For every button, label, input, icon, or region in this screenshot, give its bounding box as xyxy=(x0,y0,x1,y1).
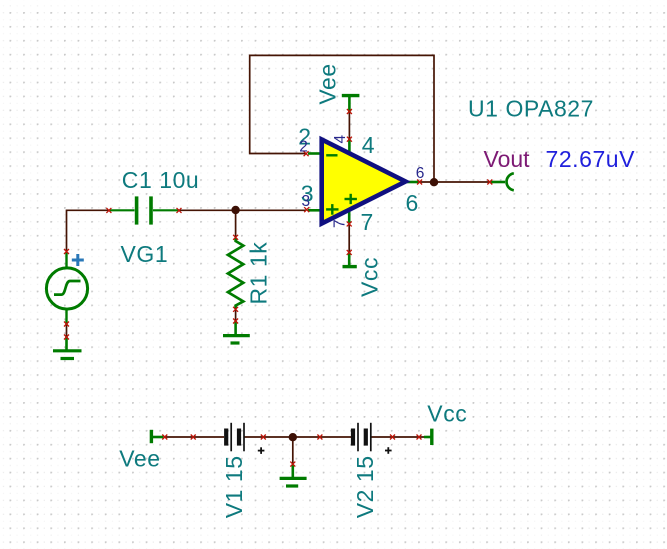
svg-text:7: 7 xyxy=(361,209,374,235)
svg-text:Vout: Vout xyxy=(484,146,531,172)
svg-text:72.67uV: 72.67uV xyxy=(546,146,636,172)
svg-text:2: 2 xyxy=(299,139,308,156)
svg-text:4: 4 xyxy=(362,132,375,158)
svg-text:7: 7 xyxy=(332,219,349,228)
svg-text:V2 15: V2 15 xyxy=(352,455,378,518)
svg-text:Vcc: Vcc xyxy=(427,401,467,427)
svg-text:Vee: Vee xyxy=(119,446,160,472)
svg-text:Vee: Vee xyxy=(315,63,341,104)
svg-text:C1 10u: C1 10u xyxy=(122,167,199,193)
svg-text:3: 3 xyxy=(302,193,311,210)
svg-text:V1 15: V1 15 xyxy=(221,455,247,518)
svg-text:R1 1k: R1 1k xyxy=(245,242,271,305)
svg-text:VG1: VG1 xyxy=(121,241,169,267)
svg-text:6: 6 xyxy=(416,165,425,182)
svg-text:6: 6 xyxy=(406,190,419,216)
svg-text:4: 4 xyxy=(332,135,349,144)
svg-text:Vcc: Vcc xyxy=(357,257,383,297)
svg-text:U1 OPA827: U1 OPA827 xyxy=(468,96,594,122)
